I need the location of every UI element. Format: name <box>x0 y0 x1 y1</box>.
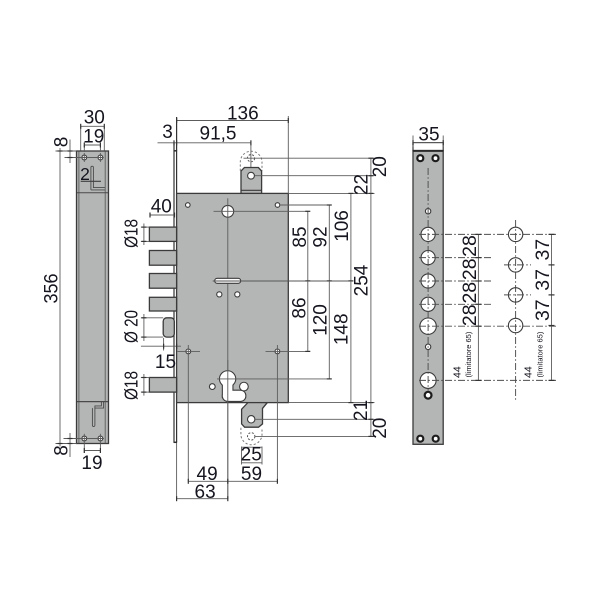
tab centerline <box>250 143 252 180</box>
dim 30 line <box>81 125 105 127</box>
dim 49/59 line <box>188 480 277 482</box>
case top level line <box>77 192 108 194</box>
bottom screw hole left <box>82 436 87 441</box>
bottom holes axis line <box>64 438 105 440</box>
dim D20 bracket <box>141 317 163 319</box>
hole top-left <box>186 203 191 208</box>
follower hole (handle hub) <box>222 205 234 217</box>
column circle 1 <box>508 227 522 241</box>
top holes axis line <box>65 157 104 159</box>
ring hole above bottom <box>425 392 432 399</box>
svg-text:86: 86 <box>290 297 311 318</box>
top screw hole left <box>82 155 87 160</box>
dim 254 line <box>370 193 372 402</box>
top tab solid <box>241 168 262 194</box>
deadbolt 5 (bottom) <box>149 378 176 393</box>
svg-text:254: 254 <box>352 264 373 296</box>
dim 86 line <box>307 281 309 352</box>
dim 21/20 bottom right line <box>370 403 372 437</box>
svg-text:Ø18: Ø18 <box>121 371 141 400</box>
screw hole bottom right <box>433 436 439 442</box>
dim 106 line <box>350 193 352 281</box>
bottom ghost hole <box>248 433 255 440</box>
inner wall line right <box>104 152 106 444</box>
bottom ghost outline <box>241 428 262 445</box>
follower leader (85) <box>214 210 308 212</box>
plate circle 5 (latch, D20) <box>420 318 436 334</box>
svg-text:Ø18: Ø18 <box>121 219 141 248</box>
dim 8 bottom line <box>69 433 71 457</box>
column circle 4 <box>508 318 522 332</box>
dim 63 line <box>177 498 228 500</box>
small hole left of key hole <box>209 384 215 390</box>
svg-text:37: 37 <box>532 299 554 321</box>
svg-text:20: 20 <box>370 156 391 177</box>
deadbolt 4 <box>149 297 176 311</box>
svg-text:28: 28 <box>459 258 481 280</box>
svg-text:20: 20 <box>370 418 391 439</box>
small hole below slot right <box>235 292 240 297</box>
datum leader line <box>213 280 351 282</box>
screw hole top right <box>433 155 439 161</box>
top tab hole <box>248 172 255 179</box>
dim 148 line <box>350 281 352 403</box>
row leader circle5 <box>419 325 556 327</box>
body top edge extension right <box>288 192 374 194</box>
key hole leader (120) <box>217 378 329 380</box>
dim 40 line <box>150 214 175 216</box>
dim 25 lines <box>241 447 243 465</box>
bottom rod leader (20) <box>255 435 374 437</box>
top hole tick marks <box>83 153 85 162</box>
striker plate top heavy edge <box>413 150 443 152</box>
plate vertical centerline <box>427 168 429 391</box>
dim 19 bottom line <box>84 450 100 452</box>
svg-text:136: 136 <box>227 103 259 124</box>
plate circle 3 <box>421 274 435 288</box>
latch bolt <box>163 318 174 337</box>
bottom tab hole <box>248 416 255 423</box>
key hole centerline redraw <box>227 360 229 499</box>
svg-text:28: 28 <box>459 235 481 257</box>
fixing hole right crosshair <box>266 350 308 352</box>
svg-text:106: 106 <box>332 210 353 242</box>
svg-text:Ø 20: Ø 20 <box>121 310 141 343</box>
svg-text:40: 40 <box>151 196 172 217</box>
svg-text:28: 28 <box>459 304 481 326</box>
top tab ghost hole <box>247 155 254 162</box>
top tab hole leader (22) <box>255 175 375 177</box>
svg-text:30: 30 <box>84 108 105 129</box>
bottom tab hole leader (21) <box>255 418 374 420</box>
svg-text:92: 92 <box>311 226 332 247</box>
second hole column centerline <box>515 220 517 400</box>
bottom screw hole right <box>98 436 103 441</box>
striker plate body <box>413 151 443 445</box>
faceplate front edge line (inner) <box>176 117 178 442</box>
svg-text:44: 44 <box>523 366 535 378</box>
dim 85 line <box>307 211 309 281</box>
top rod leader (20) <box>244 157 375 159</box>
svg-text:35: 35 <box>418 124 439 145</box>
striker plate top band <box>413 143 443 151</box>
svg-text:3: 3 <box>162 122 173 143</box>
plate circle 4 <box>421 297 435 311</box>
column circle 2 <box>508 258 522 272</box>
svg-text:85: 85 <box>290 226 311 247</box>
plate circle 1 <box>421 227 435 241</box>
fixing hole left (86 row) <box>186 349 191 354</box>
svg-text:37: 37 <box>532 269 554 291</box>
dim 15 line <box>141 345 181 347</box>
svg-text:15: 15 <box>155 352 176 373</box>
deadbolt 2 <box>149 251 176 266</box>
svg-text:25: 25 <box>241 444 262 465</box>
dim 91,5 line <box>158 142 251 144</box>
row leader circle1 <box>419 233 556 235</box>
row leader circle2 <box>419 257 492 259</box>
dim 19 top line <box>84 144 100 146</box>
bottom hole tick marks <box>83 434 85 444</box>
svg-text:8: 8 <box>52 137 73 148</box>
row leader circle6 <box>419 379 556 381</box>
center slot (datum) <box>215 278 241 283</box>
svg-text:59: 59 <box>241 464 262 485</box>
bottom bent plate channel <box>92 402 103 427</box>
chain 28 line <box>477 234 479 380</box>
label 2 leader <box>81 180 101 182</box>
dim 136 line <box>177 120 289 122</box>
column circle 2 crosshair <box>504 264 531 266</box>
case bottom level line <box>77 401 108 403</box>
svg-text:(limitatore 65): (limitatore 65) <box>464 331 473 377</box>
faceplate side profile body <box>77 151 109 444</box>
svg-text:2: 2 <box>80 164 90 184</box>
dim D18 bottom bracket <box>141 377 150 379</box>
top tab base line <box>241 189 262 191</box>
top screw hole right <box>98 155 103 160</box>
svg-text:28: 28 <box>459 282 481 304</box>
fixing hole left crosshair <box>178 350 201 352</box>
plate circle 2 <box>421 251 435 265</box>
small hole mid <box>425 344 430 349</box>
bottom tab solid <box>242 403 268 428</box>
fixing hole right (86 row) <box>275 349 280 354</box>
hole top-right <box>275 203 280 208</box>
faceplate top cap <box>174 150 178 152</box>
deadbolt 3 <box>149 274 176 289</box>
dim D18 top bracket <box>141 226 150 228</box>
lock body case <box>177 193 289 402</box>
svg-text:44: 44 <box>451 366 463 378</box>
plate circle 6 (bottom bolt) <box>420 372 436 388</box>
dim 356 line <box>59 148 61 447</box>
svg-text:63: 63 <box>195 482 216 503</box>
column circle 3 <box>508 288 522 302</box>
dim 20/22 top right line <box>370 158 372 193</box>
svg-text:120: 120 <box>310 304 331 336</box>
dim 92 line <box>328 205 330 281</box>
row leader circle4 <box>419 303 492 305</box>
svg-text:148: 148 <box>332 313 353 345</box>
faceplate bottom cap <box>174 441 178 443</box>
small hole below slot left <box>217 292 222 297</box>
svg-text:91,5: 91,5 <box>200 123 237 144</box>
row leader circle3 <box>419 280 492 282</box>
top bent plate channel (2mm section) <box>91 166 105 190</box>
svg-text:19: 19 <box>83 127 104 148</box>
top tab ghost outline (extended position) <box>240 151 262 171</box>
screw hole top left <box>417 155 423 161</box>
main vertical centerline <box>227 198 229 499</box>
svg-text:22: 22 <box>352 174 373 195</box>
column circle 3 crosshair <box>504 294 531 296</box>
chain 37 line <box>551 234 553 380</box>
svg-text:19: 19 <box>81 453 102 474</box>
svg-text:356: 356 <box>41 274 63 304</box>
pump key cylinder hole <box>220 371 248 401</box>
svg-text:8: 8 <box>52 445 73 456</box>
small hole upper <box>425 209 430 214</box>
svg-text:37: 37 <box>532 239 554 261</box>
svg-text:(limitatore 65): (limitatore 65) <box>536 331 545 377</box>
screw hole bottom left <box>417 436 423 442</box>
inner wall line left <box>78 152 80 444</box>
body bottom edge extension right <box>288 402 374 404</box>
dim 35 line <box>413 142 443 144</box>
faceplate front edge line (outer) <box>173 143 175 443</box>
deadbolt 1 <box>149 227 176 241</box>
dim 120 line <box>328 281 330 379</box>
dim 8 top line <box>69 140 71 164</box>
hole top-right leader (92) <box>280 204 329 206</box>
